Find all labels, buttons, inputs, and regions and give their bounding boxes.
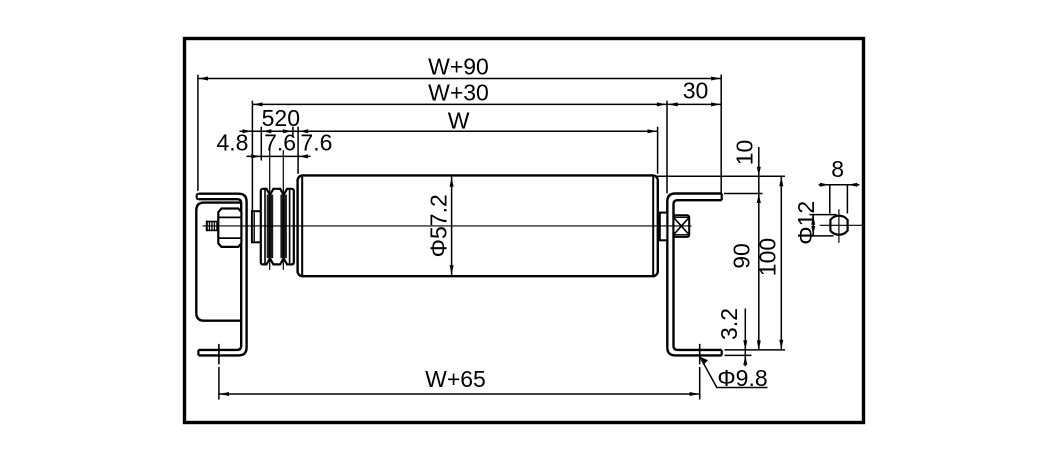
left frame channel <box>197 194 247 356</box>
svg-text:7.6: 7.6 <box>264 130 296 156</box>
svg-text:W+90: W+90 <box>428 54 489 80</box>
spring pin <box>207 221 219 232</box>
dimension 5 and 20 <box>243 105 300 161</box>
groove centerline 1 <box>269 150 271 270</box>
spacer washer <box>252 211 261 242</box>
svg-text:3.2: 3.2 <box>716 308 742 340</box>
svg-text:8: 8 <box>831 156 844 182</box>
svg-text:Φ57.2: Φ57.2 <box>426 194 452 257</box>
hex shaft end <box>674 215 690 237</box>
dimension 100 <box>755 176 784 350</box>
dimension W+90 <box>198 54 721 194</box>
right mounting hole <box>699 344 701 364</box>
bearing housing <box>660 213 668 241</box>
roller centerline <box>203 225 692 227</box>
dimension Phi12 <box>793 201 837 245</box>
grooved pulley <box>261 189 294 265</box>
dimension Phi57.2 <box>426 177 454 276</box>
drawing border frame <box>185 39 864 423</box>
dimension W <box>240 107 658 174</box>
svg-text:30: 30 <box>683 78 709 104</box>
dimension W+30 <box>252 79 667 211</box>
detail centerlines <box>820 209 864 243</box>
svg-text:W+65: W+65 <box>425 366 486 392</box>
left mounting hole <box>218 344 220 364</box>
dimension 4.8 7.6 7.6 <box>217 130 333 159</box>
groove centerline 2 <box>282 150 284 270</box>
left bracket plate <box>196 203 241 321</box>
dimension 8 <box>819 156 860 214</box>
svg-text:Φ12: Φ12 <box>793 201 819 245</box>
svg-text:90: 90 <box>729 243 755 269</box>
svg-text:4.8: 4.8 <box>217 130 249 156</box>
dimension 3.2 <box>716 308 747 366</box>
svg-text:W: W <box>448 107 470 133</box>
dimension 10 <box>732 140 761 350</box>
svg-text:W+30: W+30 <box>428 79 489 105</box>
roller tube body <box>298 175 658 276</box>
svg-text:7.6: 7.6 <box>300 130 332 156</box>
shaft cross-section <box>830 216 847 235</box>
hex nut <box>218 209 241 247</box>
dimension W+65 <box>219 366 700 400</box>
dimension 90 <box>729 243 755 269</box>
svg-text:520: 520 <box>262 105 300 131</box>
dimension Phi9.8 <box>700 357 768 391</box>
svg-text:10: 10 <box>732 140 758 166</box>
extension lines right <box>657 176 786 355</box>
svg-text:100: 100 <box>755 238 781 276</box>
right frame channel <box>667 194 721 356</box>
svg-text:Φ9.8: Φ9.8 <box>717 365 767 391</box>
dimension 30 <box>668 78 722 107</box>
